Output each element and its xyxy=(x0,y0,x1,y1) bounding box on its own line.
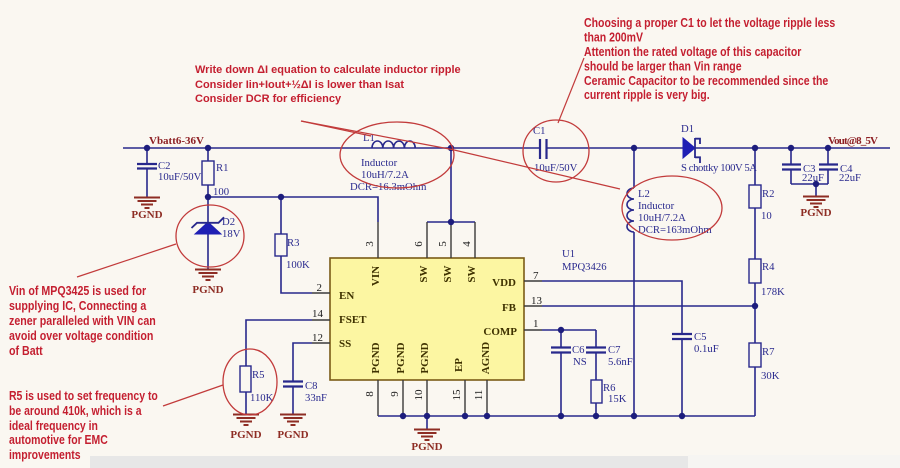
capacitor C4 xyxy=(819,163,861,184)
pin 5 stub xyxy=(450,222,452,258)
svg-text:PGND: PGND xyxy=(411,441,442,453)
ground PGND under D2 xyxy=(192,270,223,297)
svg-text:12: 12 xyxy=(312,332,323,344)
svg-text:2: 2 xyxy=(317,282,323,294)
ground PGND under C3 C4 xyxy=(800,197,831,220)
pin 8 stub xyxy=(377,380,379,416)
svg-text:3: 3 xyxy=(364,241,376,247)
wire R1 branch xyxy=(207,148,209,197)
resistor R4 xyxy=(749,259,785,298)
svg-text:30K: 30K xyxy=(761,370,780,382)
wire R3 branch xyxy=(281,197,312,293)
svg-text:10uF/50V: 10uF/50V xyxy=(158,171,202,183)
svg-text:15: 15 xyxy=(451,389,463,401)
wire IC bottom rail xyxy=(378,415,755,417)
capacitor C1 xyxy=(533,125,578,174)
pin 11 stub xyxy=(486,380,488,416)
wire C2 branch xyxy=(146,148,148,197)
svg-text:EP: EP xyxy=(453,358,465,372)
resistor R5 xyxy=(240,366,274,404)
wire FSET to R5 xyxy=(246,320,312,366)
svg-text:Vout@8_5V: Vout@8_5V xyxy=(828,135,878,147)
svg-text:SS: SS xyxy=(339,338,351,350)
svg-text:22uF: 22uF xyxy=(839,172,861,184)
svg-text:U1: U1 xyxy=(562,248,575,260)
pointer line to L1 xyxy=(301,121,371,136)
svg-text:VIN: VIN xyxy=(370,266,382,286)
wire C6 branch xyxy=(560,330,562,416)
svg-text:SW: SW xyxy=(418,265,430,282)
svg-text:R5: R5 xyxy=(252,369,264,381)
svg-text:SW: SW xyxy=(466,265,478,282)
pointer line to R5 xyxy=(163,385,223,406)
wire C3 C4 bottom xyxy=(791,184,828,196)
resistor R3 xyxy=(275,234,310,271)
pin 4 stub xyxy=(474,222,476,258)
pin 13 stub xyxy=(524,305,542,307)
svg-text:AGND: AGND xyxy=(480,342,492,374)
ground PGND under IC xyxy=(411,430,442,454)
pin 15 stub xyxy=(464,380,466,416)
svg-text:8: 8 xyxy=(364,391,376,397)
svg-text:VDD: VDD xyxy=(492,277,516,289)
svg-text:Inductor: Inductor xyxy=(361,157,398,169)
wire COMP line xyxy=(542,329,596,331)
junction dots top rail xyxy=(144,145,831,151)
svg-text:MPQ3426: MPQ3426 xyxy=(562,261,607,273)
svg-text:L2: L2 xyxy=(638,188,650,200)
red ellipse around R5 xyxy=(223,349,277,415)
wire VDD to C5 xyxy=(542,281,682,416)
inductor L2 xyxy=(627,188,712,236)
svg-text:R4: R4 xyxy=(762,261,775,273)
svg-text:PGND: PGND xyxy=(277,429,308,441)
svg-text:10uH/7.2A: 10uH/7.2A xyxy=(361,169,409,181)
zener diode D2 xyxy=(192,216,241,240)
capacitor C3 xyxy=(782,163,824,184)
svg-text:S chottky 100V 5A: S chottky 100V 5A xyxy=(681,162,757,174)
pointer line to D2 xyxy=(77,244,176,277)
svg-text:7: 7 xyxy=(533,270,539,282)
svg-text:22uF: 22uF xyxy=(802,172,824,184)
pin 6 stub xyxy=(426,222,428,258)
junction dots bottom rail xyxy=(400,413,685,419)
svg-text:D1: D1 xyxy=(681,123,694,135)
svg-text:110K: 110K xyxy=(250,392,274,404)
pin 14 stub xyxy=(312,319,330,321)
wire L2 branch xyxy=(633,148,635,416)
ground PGND under C2 xyxy=(131,198,162,222)
annotation R5 frequency note xyxy=(9,388,158,462)
pin 1 stub xyxy=(524,329,542,331)
op-amp U1 MPQ3426 body xyxy=(330,248,607,380)
svg-text:0.1uF: 0.1uF xyxy=(694,343,719,355)
capacitor C5 xyxy=(672,331,719,355)
inductor L1 xyxy=(350,132,427,193)
pin 7 stub xyxy=(524,280,542,282)
svg-text:PGND: PGND xyxy=(370,342,382,373)
svg-text:R3: R3 xyxy=(287,237,299,249)
wire SS to C8 xyxy=(293,343,312,414)
svg-text:10uF/50V: 10uF/50V xyxy=(534,162,578,174)
resistor R7 xyxy=(749,343,780,382)
pin 10 stub xyxy=(426,380,428,416)
svg-text:R7: R7 xyxy=(762,346,775,358)
wire node 100 line xyxy=(208,197,378,222)
svg-text:C7: C7 xyxy=(608,344,621,356)
svg-text:C8: C8 xyxy=(305,380,317,392)
junction dots nodes xyxy=(205,181,819,333)
pin 12 stub xyxy=(312,342,330,344)
wire C3 branch xyxy=(790,148,792,184)
svg-text:COMP: COMP xyxy=(483,326,517,338)
pin 9 stub xyxy=(402,380,404,416)
wire mid ground stub xyxy=(426,416,428,429)
red ellipse around D2 xyxy=(176,205,244,267)
svg-text:FSET: FSET xyxy=(339,314,367,326)
svg-text:14: 14 xyxy=(312,308,324,320)
svg-text:FB: FB xyxy=(502,302,517,314)
svg-text:R1: R1 xyxy=(216,162,228,174)
svg-text:15K: 15K xyxy=(608,393,627,405)
ground PGND under C8 xyxy=(277,415,308,442)
wire SW node vertical xyxy=(427,148,475,222)
svg-text:100K: 100K xyxy=(286,259,310,271)
svg-text:SW: SW xyxy=(442,265,454,282)
svg-text:PGND: PGND xyxy=(192,284,223,296)
annotation inductor ripple note xyxy=(195,64,461,105)
pointer line to C1 xyxy=(558,58,584,123)
svg-text:13: 13 xyxy=(531,295,543,307)
red ellipse around L1 xyxy=(340,122,454,188)
red ellipse around C1 xyxy=(523,120,589,182)
svg-text:10: 10 xyxy=(413,389,425,401)
svg-text:5: 5 xyxy=(437,241,449,247)
svg-text:Vbatt6-36V: Vbatt6-36V xyxy=(149,135,204,147)
wire R5 to ground xyxy=(245,392,247,414)
pin 2 stub xyxy=(312,292,330,294)
wire D2 branch xyxy=(207,197,209,269)
wire FB line xyxy=(542,305,755,307)
svg-text:Inductor: Inductor xyxy=(638,200,675,212)
svg-text:6: 6 xyxy=(413,241,425,247)
wire C7 branch xyxy=(595,330,597,416)
svg-text:18V: 18V xyxy=(222,228,241,240)
svg-text:9: 9 xyxy=(389,391,401,397)
svg-text:PGND: PGND xyxy=(131,209,162,221)
svg-text:5.6nF: 5.6nF xyxy=(608,356,633,368)
svg-text:PGND: PGND xyxy=(800,207,831,219)
capacitor C2 xyxy=(137,160,202,183)
red ellipse around L2 xyxy=(622,176,722,240)
svg-text:178K: 178K xyxy=(761,286,785,298)
svg-text:PGND: PGND xyxy=(230,429,261,441)
svg-text:D2: D2 xyxy=(222,216,235,228)
svg-text:PGND: PGND xyxy=(419,342,431,373)
resistor R6 xyxy=(591,380,627,405)
svg-text:R2: R2 xyxy=(762,188,774,200)
resistor R2 xyxy=(749,185,774,222)
ground PGND under R5 xyxy=(230,415,261,442)
pin 3 stub xyxy=(377,222,379,258)
wire C4 branch xyxy=(827,148,829,184)
annotation Vin zener note xyxy=(9,283,156,358)
wire R2 R4 R7 column xyxy=(754,148,756,416)
svg-text:PGND: PGND xyxy=(395,342,407,373)
svg-text:4: 4 xyxy=(461,241,473,247)
svg-text:EN: EN xyxy=(339,290,354,302)
svg-text:NS: NS xyxy=(573,356,587,368)
capacitor C8 xyxy=(283,380,327,404)
svg-text:10uH/7.2A: 10uH/7.2A xyxy=(638,212,686,224)
resistor R1 xyxy=(202,161,228,185)
wire main top rail xyxy=(123,147,890,149)
svg-text:1: 1 xyxy=(533,318,539,330)
svg-text:33nF: 33nF xyxy=(305,392,327,404)
pointer line to L2 xyxy=(301,121,620,189)
annotation C1 note xyxy=(584,15,836,102)
svg-text:10: 10 xyxy=(761,210,772,222)
capacitor C7 xyxy=(586,344,633,368)
capacitor C6 xyxy=(551,344,587,368)
svg-text:C6: C6 xyxy=(572,344,585,356)
diode D1 xyxy=(681,123,757,174)
svg-text:11: 11 xyxy=(473,390,485,401)
svg-text:DCR=16.3mOhm: DCR=16.3mOhm xyxy=(350,181,427,193)
svg-text:C5: C5 xyxy=(694,331,706,343)
